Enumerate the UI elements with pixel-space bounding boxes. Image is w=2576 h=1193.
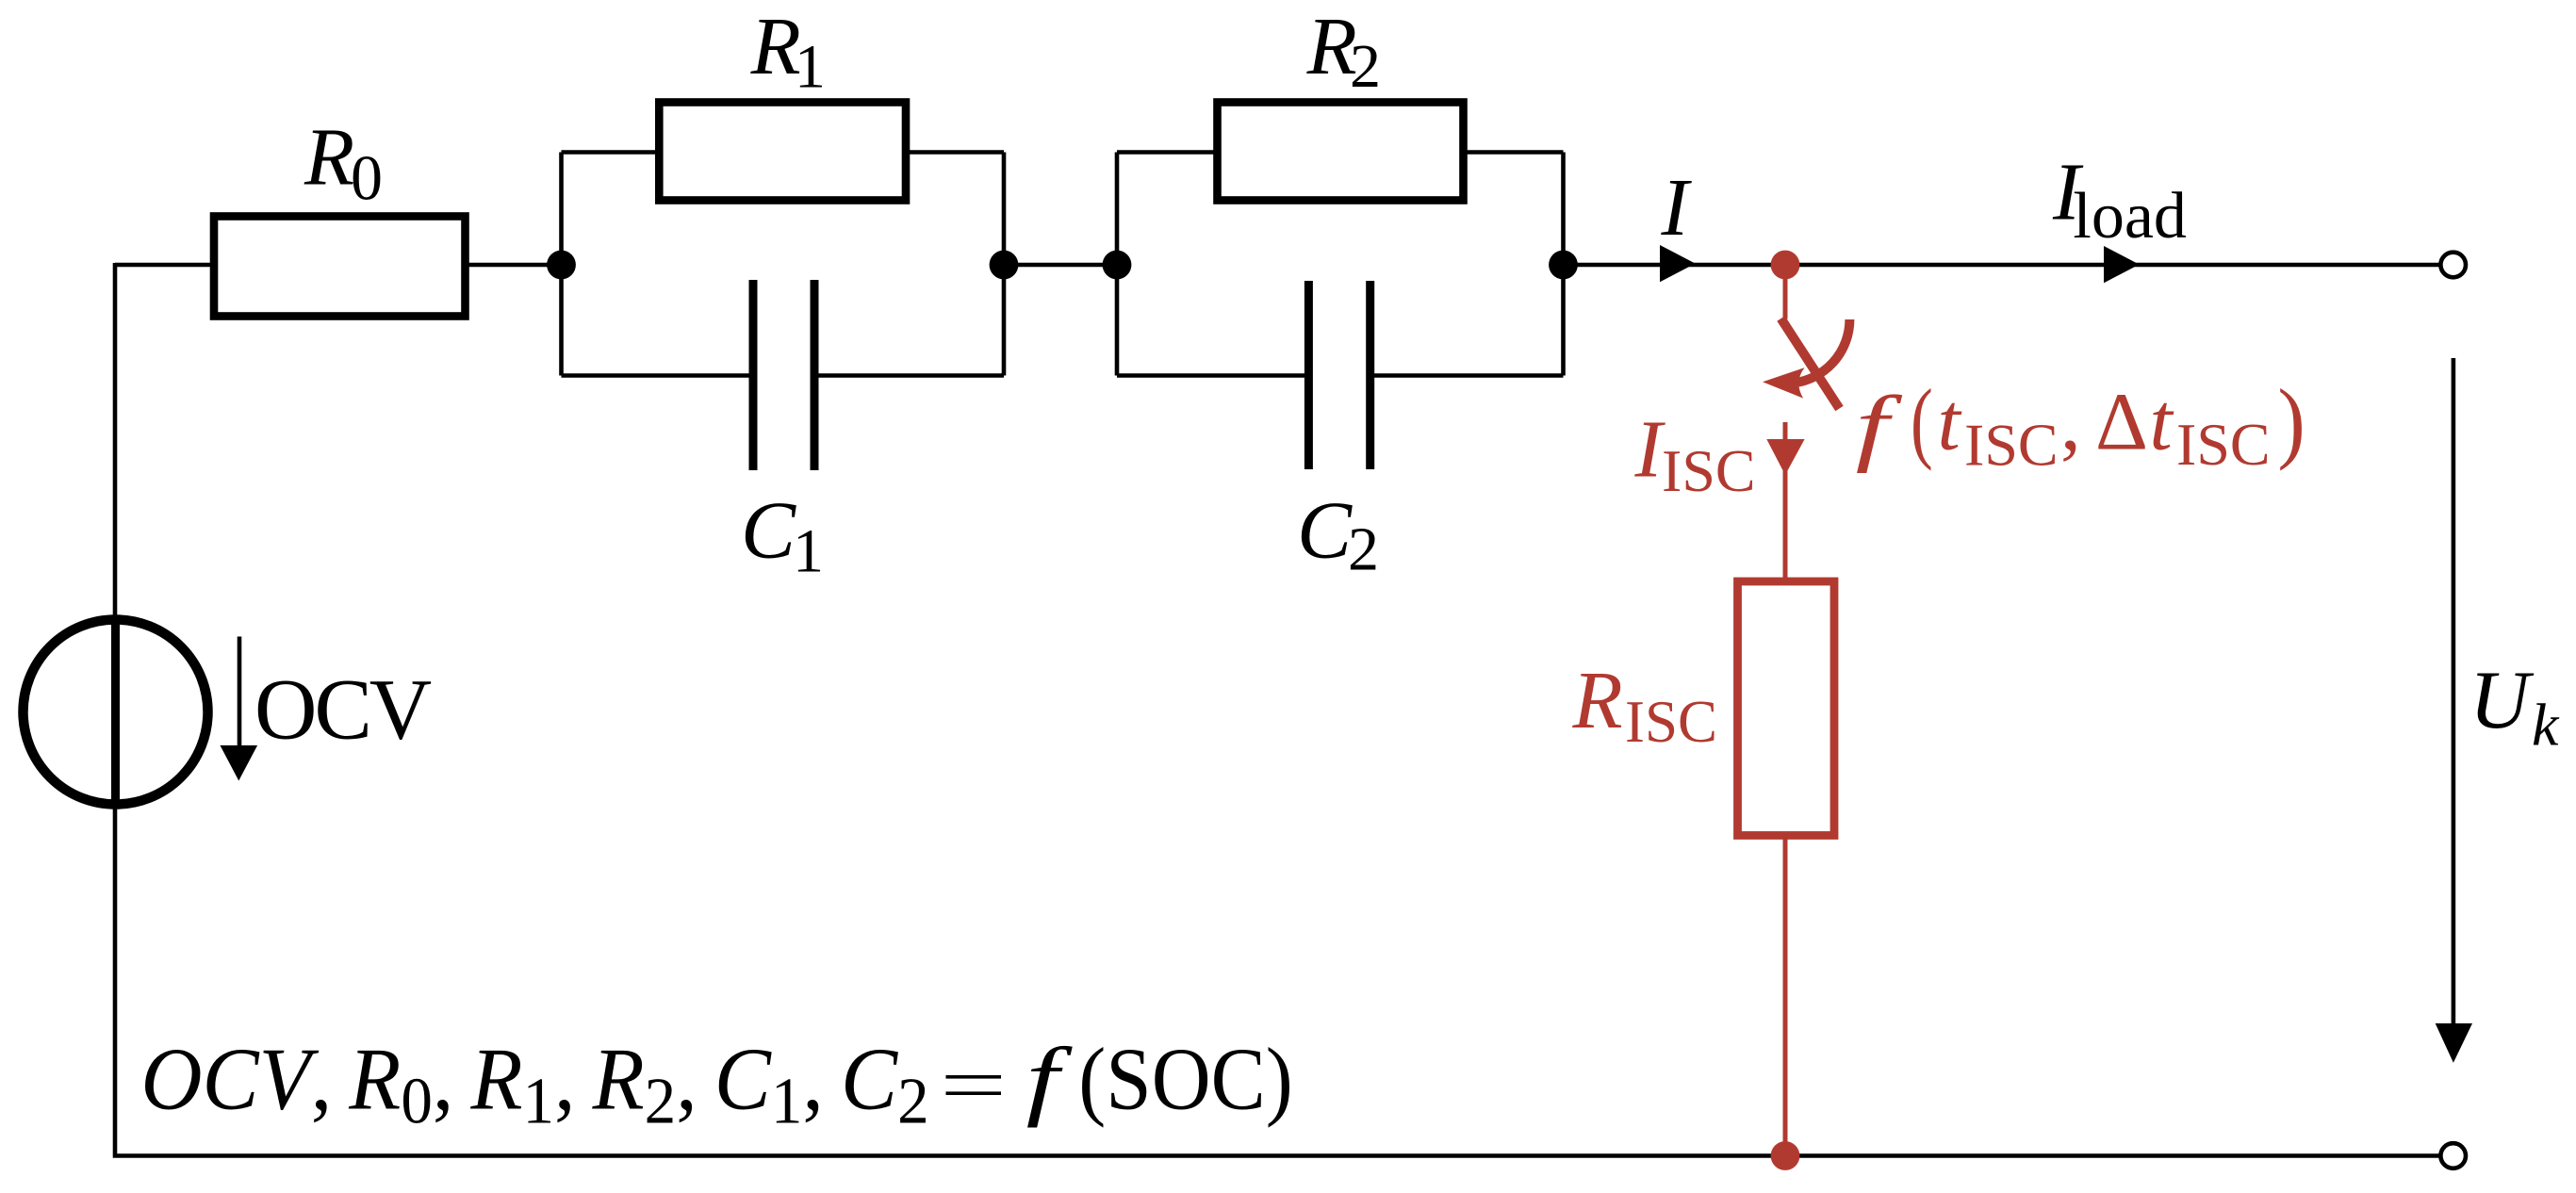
svg-text:OCV: OCV bbox=[254, 661, 432, 757]
svg-text:,: , bbox=[2060, 376, 2081, 467]
svg-text:): ) bbox=[2277, 371, 2305, 471]
svg-text:1: 1 bbox=[795, 33, 826, 102]
svg-text:t: t bbox=[2150, 376, 2174, 467]
svg-text:0: 0 bbox=[351, 142, 383, 214]
svg-text:Δ: Δ bbox=[2095, 376, 2148, 467]
svg-text:ISC: ISC bbox=[1625, 689, 1717, 755]
svg-text:C: C bbox=[1297, 484, 1353, 576]
svg-text:R: R bbox=[750, 0, 801, 91]
svg-text:2: 2 bbox=[1348, 515, 1379, 583]
svg-text:load: load bbox=[2073, 180, 2187, 253]
svg-text:ISC: ISC bbox=[1964, 411, 2059, 478]
svg-text:2: 2 bbox=[1350, 32, 1381, 101]
svg-text:ISC: ISC bbox=[1662, 437, 1756, 504]
svg-text:k: k bbox=[2532, 691, 2560, 758]
svg-text:t: t bbox=[1938, 376, 1962, 467]
svg-text:I: I bbox=[1661, 161, 1693, 253]
svg-text:(: ( bbox=[1911, 372, 1933, 472]
svg-text:ISC: ISC bbox=[2176, 411, 2271, 478]
svg-text:R: R bbox=[304, 111, 354, 203]
svg-text:U: U bbox=[2469, 655, 2535, 746]
svg-text:R: R bbox=[1572, 654, 1623, 745]
svg-text:1: 1 bbox=[793, 516, 824, 585]
svg-text:C: C bbox=[741, 484, 796, 576]
svg-text:(SOC): (SOC) bbox=[1078, 1029, 1292, 1128]
